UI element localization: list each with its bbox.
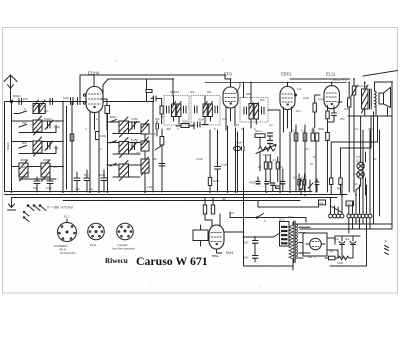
- svg-text:0,3: 0,3: [292, 129, 296, 133]
- svg-text:0,1μ: 0,1μ: [318, 97, 324, 101]
- socket S7: [117, 223, 134, 240]
- capacitor C24: [215, 167, 221, 170]
- switch S2c: [110, 164, 117, 167]
- svg-text:(Ph.A): (Ph.A): [59, 248, 66, 252]
- coil L5: [41, 160, 50, 181]
- svg-text:Riwecu: Riwecu: [105, 257, 128, 265]
- wire antenna input row: [12, 101, 87, 103]
- ground GND1: [8, 198, 16, 210]
- resistor R26: [339, 178, 342, 185]
- capacitor T1c1: [167, 106, 170, 113]
- coil L11: [141, 157, 149, 175]
- capacitor C2: [50, 99, 53, 105]
- capacitor C11: [101, 178, 107, 181]
- svg-text:EL11: EL11: [90, 243, 97, 247]
- wire brow2: [108, 143, 141, 155]
- capacitor C27: [256, 182, 260, 184]
- terminal strip: [329, 214, 372, 218]
- svg-text:4μF: 4μF: [345, 237, 350, 241]
- wire earth branch: [5, 102, 12, 193]
- wire arow2: [12, 142, 64, 154]
- switch S5 diagonal: [332, 207, 343, 213]
- resistor R16: [208, 178, 211, 186]
- coil T2b: [208, 102, 212, 117]
- scan speckles: [58, 59, 311, 287]
- svg-text:4,5V: 4,5V: [356, 155, 362, 159]
- value labels group: [6, 87, 387, 265]
- IF can T1: [164, 96, 189, 126]
- wire column joiner: [62, 102, 64, 193]
- wire bus lower: [63, 200, 300, 202]
- svg-text:EWa: EWa: [212, 254, 219, 258]
- capacitor T3c2: [262, 107, 265, 114]
- svg-text:10: 10: [310, 162, 313, 166]
- capacitor C28: [265, 182, 269, 184]
- transformer TR2 output primary: [362, 85, 369, 113]
- svg-text:Auswahl: Auswahl: [117, 243, 128, 247]
- svg-text:100: 100: [23, 97, 28, 101]
- wire T2: [205, 96, 211, 124]
- capacitor C31: [154, 96, 157, 101]
- wire under cans: [176, 122, 208, 129]
- resistor R22: [299, 181, 302, 189]
- svg-text:500pF: 500pF: [6, 142, 10, 150]
- svg-text:10nF: 10nF: [303, 96, 309, 100]
- wire V2 top cap: [225, 75, 231, 87]
- components under IF cans: resistor R5: [181, 124, 189, 128]
- svg-text:0,5MΩ: 0,5MΩ: [263, 153, 271, 157]
- wire r19: [348, 83, 350, 193]
- capacitor C1: [19, 99, 22, 105]
- wire speaker top: [365, 82, 392, 130]
- resistor R20: [338, 256, 349, 260]
- capacitor C25: [332, 113, 337, 116]
- svg-text:6,3V: 6,3V: [355, 219, 361, 223]
- wire arow1: [12, 121, 64, 133]
- capacitor C19: [234, 146, 245, 150]
- coil L8: [119, 161, 129, 181]
- svg-text:5000: 5000: [318, 127, 324, 131]
- tube V4 EL11: [324, 83, 342, 129]
- resistor R7: [294, 133, 298, 141]
- resistor R12: [276, 162, 279, 169]
- svg-text:50kΩ: 50kΩ: [110, 115, 116, 119]
- wire arow3: [12, 167, 64, 180]
- resistor R9: [311, 133, 315, 141]
- resistor R11: [269, 162, 272, 169]
- resistor R14: [203, 205, 206, 214]
- wire column joiner2: [66, 106, 68, 189]
- resistor R13: [298, 180, 301, 186]
- transformer TR2 secondary: [375, 91, 377, 107]
- wires below strip: [349, 218, 370, 266]
- wire brow3: [108, 165, 141, 177]
- svg-text:5-25p: 5-25p: [131, 117, 138, 121]
- tube V2 EF9: [223, 87, 238, 130]
- resistor R24: [160, 106, 163, 114]
- capacitor T3c: [244, 107, 247, 114]
- resistor R23: [146, 90, 152, 93]
- capacitor C7: [34, 181, 40, 184]
- IF can T3: [240, 98, 268, 123]
- svg-text:(EL11 Wd): (EL11 Wd): [333, 78, 347, 82]
- scanned page sheet: [3, 28, 398, 294]
- switch S2a: [110, 120, 117, 123]
- svg-text:10n: 10n: [296, 109, 301, 113]
- wire c10: [86, 170, 88, 192]
- wire c11: [103, 170, 105, 192]
- AF section: resistor R6: [255, 134, 265, 138]
- svg-text:EBF2: EBF2: [281, 72, 292, 77]
- svg-text:0,1μF: 0,1μF: [221, 163, 228, 167]
- wire T3: [244, 83, 257, 129]
- svg-text:ECH/EBF2: ECH/EBF2: [54, 244, 68, 248]
- resistor R8: [303, 133, 307, 141]
- svg-text:EM4: EM4: [226, 251, 233, 255]
- IF can T2: [191, 96, 220, 126]
- svg-text:57: 57: [236, 123, 239, 127]
- wire antenna down lead: [11, 102, 13, 193]
- coil T1b: [177, 102, 181, 117]
- svg-text:468: 468: [246, 92, 251, 96]
- svg-text:25p: 25p: [136, 151, 141, 155]
- wire V3 grid: [268, 109, 280, 111]
- svg-text:500pF: 500pF: [13, 94, 21, 98]
- switch S2b: [110, 141, 117, 144]
- switch S1b: [19, 125, 27, 128]
- coil L4: [19, 160, 28, 181]
- capacitor T2c2: [215, 106, 218, 113]
- resistor R1: [105, 106, 110, 114]
- svg-text:50k: 50k: [311, 129, 316, 133]
- capacitor C20: [253, 241, 259, 244]
- wires right verticals: [331, 130, 371, 214]
- tube V5 EM4 tuning eye: [209, 214, 224, 253]
- wire brow1: [108, 122, 141, 134]
- svg-text:330Ω: 330Ω: [182, 120, 189, 124]
- wire sw top: [147, 79, 162, 124]
- svg-text:50pF: 50pF: [150, 132, 156, 136]
- trimmer C13: [130, 142, 138, 151]
- wire yE: [290, 78, 350, 80]
- svg-text:Caruso W 671: Caruso W 671: [136, 254, 208, 268]
- wires bus ground: [5, 192, 348, 198]
- svg-text:EL?: EL?: [64, 215, 69, 219]
- resistor R4: [160, 137, 164, 146]
- svg-text:S2: S2: [354, 182, 358, 186]
- capacitor C16: [198, 122, 201, 127]
- trimmer C5: [45, 120, 53, 130]
- wire diagonal corner: [363, 71, 398, 77]
- switch S1c: [19, 146, 27, 149]
- sw section coils: coil L9: [141, 120, 149, 134]
- svg-text:0,5: 0,5: [305, 147, 309, 151]
- node grid circles V1: [83, 94, 85, 96]
- svg-text:100p: 100p: [63, 96, 69, 100]
- terminal N1 box: [346, 201, 354, 206]
- svg-text:0,1: 0,1: [301, 129, 305, 133]
- bank A row1: switch S1a: [14, 111, 27, 114]
- capacitor C26: [315, 182, 319, 185]
- resistor R9c: [326, 133, 330, 141]
- resistor R9b: [315, 133, 319, 141]
- transformer TR1 mains primary: [289, 225, 293, 259]
- wire V2 anode bus yD: [205, 83, 346, 94]
- svg-text:A: A: [385, 247, 387, 251]
- svg-text:E: E: [385, 239, 387, 243]
- tube V3 EBF2: [280, 83, 297, 133]
- capacitor C23 electrolytic: [350, 236, 356, 252]
- resistor R19: [348, 98, 351, 107]
- svg-text:100p: 100p: [46, 186, 52, 190]
- svg-text:50p: 50p: [260, 98, 265, 102]
- svg-text:2x220: 2x220: [44, 117, 52, 121]
- wire electrolytics top: [335, 236, 360, 257]
- svg-text:ECH4: ECH4: [88, 71, 100, 76]
- svg-text:150: 150: [344, 107, 349, 111]
- resistor R13b: [303, 180, 306, 186]
- potentiometer P2 tone: [351, 85, 358, 97]
- wire r25 r26: [331, 112, 373, 195]
- bank B oscillator: feed: [107, 114, 109, 192]
- svg-text:47μF: 47μF: [236, 141, 243, 145]
- wires resistor bank lower: [258, 155, 305, 192]
- coil T1a: [172, 102, 176, 117]
- switch S4 mains: [257, 214, 264, 218]
- svg-text:1nF: 1nF: [302, 176, 307, 180]
- wire sw vertical: [103, 102, 162, 193]
- capacitor C14: [156, 124, 159, 130]
- svg-text:Kl: Kl: [374, 157, 377, 161]
- svg-text:fT = 988 / 473 kHz: fT = 988 / 473 kHz: [47, 206, 74, 210]
- socket S5: [58, 219, 77, 242]
- wire rbank top: [296, 125, 328, 133]
- wire p2: [353, 79, 355, 192]
- capacitor C21: [253, 256, 259, 259]
- svg-text:EL11: EL11: [326, 72, 336, 77]
- wire power links: [327, 236, 338, 257]
- svg-text:0,2A: 0,2A: [356, 159, 362, 163]
- svg-text:100: 100: [293, 176, 298, 180]
- node antenna junction: [10, 100, 12, 102]
- svg-text:0,1: 0,1: [96, 117, 100, 121]
- svg-text:43nF: 43nF: [249, 181, 255, 185]
- lamp LP2: [357, 171, 364, 178]
- capacitor C8: [47, 181, 53, 184]
- coil T2a: [203, 102, 207, 117]
- wire c9: [76, 172, 78, 192]
- coil L1 antenna primary: [33, 100, 39, 114]
- svg-text:x4: x4: [54, 165, 57, 169]
- wire tr1: [293, 222, 310, 270]
- wire tr2 bottom: [331, 107, 392, 171]
- svg-text:30: 30: [330, 249, 333, 253]
- band switch lever S3: [23, 205, 46, 222]
- wire lamps: [356, 152, 366, 195]
- mains terminals: [385, 246, 389, 255]
- svg-text:20p: 20p: [44, 109, 49, 113]
- svg-text:50p: 50p: [207, 90, 212, 94]
- trimmer C12: [130, 122, 138, 131]
- svg-text:AZ 1: AZ 1: [308, 255, 316, 259]
- wire R1 leads: [101, 99, 108, 130]
- wire heater run: [230, 200, 319, 222]
- trimmer C6: [45, 141, 53, 151]
- capacitor C9: [74, 178, 80, 181]
- svg-text:5p: 5p: [90, 187, 93, 191]
- resistor R18: [313, 103, 316, 112]
- svg-text:Wd.Hlg: Wd.Hlg: [357, 84, 367, 88]
- resistor R21: [329, 256, 336, 260]
- svg-text:4,0: 4,0: [273, 158, 277, 162]
- svg-text:50p: 50p: [190, 90, 195, 94]
- tube V1 ECH4: [86, 87, 103, 193]
- box near EM4: [193, 230, 208, 241]
- capacitor C15: [159, 164, 165, 167]
- capacitor C4: [78, 98, 81, 105]
- transformer TR1 core: [294, 221, 295, 263]
- wire V1 left leads: [71, 102, 73, 193]
- socket S6: [88, 223, 105, 240]
- potentiometer P1 volume: [256, 145, 276, 154]
- wire r21: [325, 257, 353, 258]
- switch S6 arrow: [308, 183, 313, 188]
- svg-text:50p: 50p: [54, 146, 59, 150]
- capacitor T2c1: [195, 106, 198, 113]
- svg-text:(von oben gesehen): (von oben gesehen): [112, 247, 135, 251]
- resistor R13c horizontal: [276, 186, 281, 188]
- svg-text:1nF: 1nF: [297, 87, 302, 91]
- svg-text:5nF: 5nF: [244, 241, 249, 245]
- svg-text:MW: MW: [22, 141, 27, 145]
- svg-text:5-25p: 5-25p: [131, 138, 138, 142]
- transformer TR1 secondary: [296, 224, 298, 259]
- wire c25: [328, 112, 335, 123]
- svg-text:0,2: 0,2: [269, 123, 273, 127]
- switch S2d: [155, 146, 161, 150]
- svg-text:380: 380: [368, 127, 373, 131]
- svg-text:0,1: 0,1: [355, 127, 359, 131]
- svg-text:N1: N1: [348, 202, 352, 206]
- svg-text:100p: 100p: [99, 173, 105, 177]
- svg-text:30: 30: [258, 165, 261, 169]
- capacitor C10: [84, 178, 90, 181]
- wire AF verticals: [236, 110, 328, 237]
- capacitor T1c2: [184, 106, 187, 113]
- resistor R10: [264, 162, 267, 169]
- svg-text:5nF: 5nF: [244, 256, 249, 260]
- svg-text:KW: KW: [22, 121, 27, 125]
- capacitor C30: [281, 182, 285, 184]
- transformer TR2 core: [370, 89, 372, 109]
- resistor R17 cathode: [326, 111, 329, 119]
- svg-text:0,1: 0,1: [222, 117, 226, 121]
- capacitor C18: [268, 141, 273, 144]
- svg-text:20000: 20000: [43, 158, 51, 162]
- wire top bus yA: [80, 74, 225, 76]
- svg-text:0,5: 0,5: [230, 211, 234, 215]
- capacitor C3 grid coupling: [71, 98, 74, 105]
- coil L10: [141, 137, 149, 151]
- svg-text:4μF: 4μF: [334, 237, 339, 241]
- coil L3: [33, 137, 42, 156]
- resistor R3: [95, 132, 99, 140]
- lamp LP1: [357, 162, 364, 169]
- wires right bottom links: [296, 112, 392, 266]
- wire caps row: [37, 177, 50, 192]
- svg-text:175p: 175p: [147, 185, 153, 189]
- svg-text:50p: 50p: [84, 173, 89, 177]
- resistor R25: [330, 178, 333, 185]
- capacitor C17: [268, 133, 273, 136]
- wire anode feed yB: [103, 79, 173, 96]
- svg-text:300: 300: [155, 117, 160, 121]
- resistor R2: [70, 134, 74, 141]
- svg-text:1MΩ: 1MΩ: [100, 134, 106, 138]
- wire V1 top cap: [93, 75, 95, 87]
- svg-text:50p: 50p: [33, 186, 38, 190]
- coil T3a: [249, 103, 253, 120]
- wires EM4: [205, 198, 244, 232]
- voltage selector VS: [280, 222, 290, 247]
- svg-text:0,1: 0,1: [300, 187, 304, 191]
- svg-text:4p: 4p: [56, 119, 59, 123]
- speaker LS: [379, 88, 391, 108]
- svg-text:Fernsehröhre: Fernsehröhre: [60, 251, 76, 255]
- svg-text:30000: 30000: [20, 158, 28, 162]
- svg-text:1200: 1200: [337, 261, 343, 265]
- svg-text:0,1μF: 0,1μF: [196, 157, 203, 161]
- svg-text:100p: 100p: [54, 125, 60, 129]
- antenna A1: [4, 75, 17, 102]
- coil T3b: [254, 103, 258, 120]
- wire box em4: [200, 225, 202, 246]
- svg-text:220V: 220V: [354, 172, 360, 176]
- svg-text:30,0 μ: 30,0 μ: [255, 129, 263, 133]
- svg-text:25μ: 25μ: [340, 117, 345, 121]
- svg-text:MF: MF: [337, 187, 341, 191]
- wire selector feed: [244, 233, 281, 237]
- capacitor C29: [271, 183, 275, 185]
- coil L2: [33, 116, 42, 135]
- svg-text:1nF: 1nF: [75, 187, 80, 191]
- svg-text:N2: N2: [320, 201, 324, 205]
- coil L7: [119, 138, 129, 158]
- wire mf: [301, 178, 317, 195]
- svg-text:Netz: Netz: [288, 215, 294, 219]
- svg-text:468: 468: [166, 127, 171, 131]
- rectifier box: [303, 233, 327, 256]
- wire em leads: [210, 126, 238, 192]
- svg-text:41: 41: [280, 165, 283, 169]
- wire selector caps: [244, 237, 294, 266]
- wire yA left corner: [79, 75, 81, 97]
- tube V6 AZ1: [306, 238, 325, 250]
- svg-text:50pF: 50pF: [198, 118, 204, 122]
- svg-text:EF9: EF9: [224, 72, 232, 77]
- terminal N2 box: [319, 200, 326, 205]
- wire T1: [174, 96, 180, 124]
- coil L6: [119, 117, 129, 137]
- svg-text:20 V: 20 V: [279, 218, 285, 222]
- svg-text:S: S: [264, 219, 266, 223]
- svg-text:468kHz: 468kHz: [170, 90, 180, 94]
- coil L1b: [40, 100, 46, 114]
- svg-text:LW: LW: [22, 165, 26, 169]
- resistor R15: [211, 205, 214, 214]
- wire r18: [315, 95, 320, 128]
- capacitor C22 electrolytic: [339, 236, 345, 252]
